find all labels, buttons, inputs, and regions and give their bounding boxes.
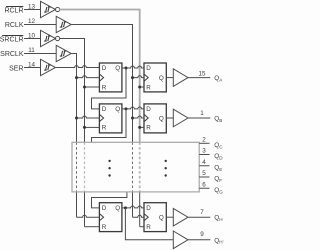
- svg-text:RCLR: RCLR: [4, 8, 23, 15]
- svg-text:Q: Q: [159, 115, 164, 122]
- wire storage QA to output buffer: [166, 77, 173, 79]
- svg-text:D: D: [146, 205, 151, 212]
- wire SRCLK dashed segment inside stage C-G box: [76, 142, 78, 192]
- wire QG' from stage C-G box to stage H shift D: [92, 192, 127, 208]
- svg-text:SRCLR: SRCLR: [0, 37, 24, 44]
- svg-text:Q: Q: [159, 75, 164, 82]
- svg-text:1: 1: [200, 110, 204, 117]
- wire SRCLK input stub: [24, 53, 56, 55]
- wire SRCLR dashed segment inside stage C-G box: [84, 142, 86, 192]
- wire RCLK input stub: [24, 24, 56, 26]
- block stages C through G (grey box): [72, 142, 199, 192]
- ellipsis dots (shift column): [108, 160, 110, 177]
- output QE pin 4 wire and labels: [199, 159, 222, 172]
- wire RCLK net: right then down bus to stage H storage clock: [71, 25, 132, 218]
- wire SRCLR to shift R H: [85, 226, 100, 228]
- svg-text:5: 5: [202, 170, 206, 177]
- svg-text:9: 9: [200, 231, 204, 238]
- schmitt buffer U2 (RCLK): [56, 16, 71, 32]
- output buffer QB: [173, 109, 188, 127]
- wire RCLR net (light): right along top then down to stage H storage R: [59, 10, 139, 227]
- ellipsis dots (storage column): [165, 160, 167, 177]
- svg-text:D: D: [102, 205, 107, 212]
- net label SER (pin 14): [9, 61, 35, 72]
- wire RCLK dashed segment inside stage C-G box: [132, 142, 134, 192]
- net label RCLK (pin 12): [5, 18, 36, 29]
- svg-text:Q: Q: [159, 215, 164, 222]
- schmitt inverter U3 (SRCLR): [41, 30, 60, 46]
- svg-text:R: R: [146, 224, 151, 231]
- svg-text:3: 3: [202, 148, 206, 155]
- wire RCLR to storage R A: [138, 86, 144, 89]
- wire QA' to stage B shift D: [92, 68, 127, 109]
- output buffer QA: [173, 69, 188, 87]
- output QG pin 6 wire and labels: [199, 181, 223, 194]
- wire SRCLK to shift clock A: [75, 76, 99, 79]
- wire SRCLR net: right then down bus to stage H shift R: [59, 39, 84, 227]
- wire SRCLK net: right then down bus to stage H shift clock: [71, 54, 76, 218]
- svg-text:RCLK: RCLK: [5, 22, 24, 29]
- svg-text:4: 4: [202, 159, 206, 166]
- svg-text:2: 2: [202, 136, 206, 143]
- wire RCLK to storage clock H: [133, 215, 145, 217]
- wire SRCLK to shift clock B: [75, 116, 99, 119]
- svg-text:R: R: [102, 84, 107, 91]
- svg-text:R: R: [102, 125, 107, 132]
- svg-text:12: 12: [28, 18, 36, 25]
- svg-text:Q: Q: [115, 106, 120, 113]
- svg-text:R: R: [146, 125, 151, 132]
- junction node QB' (shift B output): [125, 107, 128, 110]
- wire storage QH to output buffer: [166, 216, 173, 218]
- net label SRCLR (pin 10), active-low overline: [0, 32, 35, 43]
- net label SRCLK (pin 11): [0, 47, 35, 58]
- wire SER input stub: [24, 67, 41, 69]
- wire QB' down into stage C-G box: [92, 109, 127, 142]
- wire storage QB to output buffer: [166, 117, 173, 119]
- wire RCLR to storage R B: [138, 126, 144, 129]
- svg-text:SER: SER: [9, 66, 23, 73]
- svg-text:R: R: [102, 224, 107, 231]
- output QH pin 7 wire and labels: [188, 209, 223, 222]
- output QB pin 1 wire and labels: [188, 110, 222, 123]
- wire RCLR dashed segment inside stage C-G box: [139, 142, 141, 192]
- svg-text:11: 11: [28, 47, 35, 54]
- wire SRCLR to shift R A: [83, 86, 99, 89]
- output buffer QH: [173, 208, 188, 226]
- svg-text:Q: Q: [115, 65, 120, 72]
- junction node QA' (shift A output): [125, 67, 128, 70]
- svg-text:6: 6: [202, 181, 206, 188]
- svg-text:D: D: [146, 65, 151, 72]
- wire SRCLK to shift clock H: [77, 215, 100, 217]
- svg-text:Q: Q: [115, 205, 120, 212]
- wire RCLK to storage clock A: [131, 76, 144, 79]
- flip-flop shift A: [99, 63, 122, 92]
- output QF pin 5 wire and labels: [199, 170, 222, 183]
- wire RCLR input stub: [24, 9, 41, 11]
- wire shift Q to storage D B (hops over RCLK/RCLR): [122, 107, 144, 109]
- flip-flop storage A: [144, 63, 166, 92]
- svg-text:15: 15: [198, 70, 206, 77]
- output QD pin 3 wire and labels: [199, 148, 223, 161]
- wire SRCLR to shift R B: [83, 126, 99, 129]
- wire QH' to serial output buffer: [125, 208, 173, 240]
- wire SRCLR input stub: [24, 38, 41, 40]
- wire RCLK to storage clock B: [131, 116, 144, 119]
- output buffer QH' (serial out): [173, 231, 188, 249]
- net label RCLR (pin 13), active-low overline: [4, 3, 35, 14]
- flip-flop shift B: [99, 104, 122, 133]
- schmitt buffer U5 (SER): [41, 59, 56, 75]
- svg-text:7: 7: [200, 209, 204, 216]
- output QH' pin 9 wire and labels: [188, 231, 224, 245]
- output QC pin 2 wire and labels: [199, 136, 223, 149]
- svg-text:D: D: [102, 106, 107, 113]
- schmitt inverter U1 (RCLR): [41, 1, 60, 17]
- svg-text:D: D: [146, 106, 151, 113]
- wire shift Q to storage D H (hops over RCLK/RCLR): [122, 206, 144, 208]
- junction node QH' (shift H output): [124, 206, 127, 209]
- flip-flop storage H: [144, 203, 166, 232]
- output QA pin 15 wire and labels: [188, 70, 223, 82]
- svg-text:R: R: [146, 84, 151, 91]
- schmitt buffer U4 (SRCLK): [56, 45, 71, 61]
- flip-flop storage B: [144, 104, 166, 133]
- wire shift Q to storage D A (hops over RCLK/RCLR): [122, 66, 144, 68]
- wire SER to stage A shift D (hops over SRCLK and SRCLR buses): [55, 66, 99, 68]
- flip-flop shift H: [99, 203, 122, 232]
- svg-text:SRCLK: SRCLK: [0, 51, 24, 58]
- svg-text:D: D: [102, 65, 107, 72]
- wire RCLR to storage R H: [140, 226, 144, 228]
